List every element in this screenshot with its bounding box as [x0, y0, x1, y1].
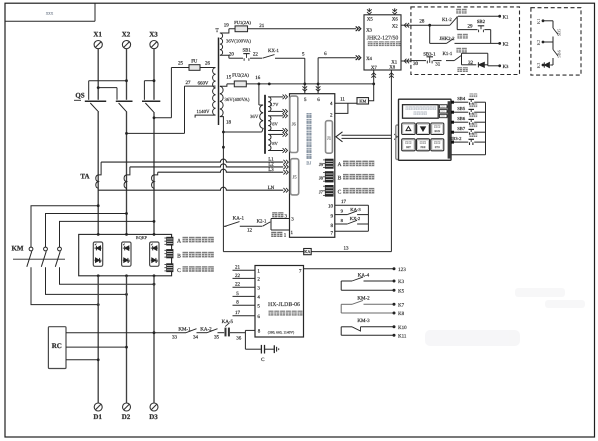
svg-text:STO: STO [435, 146, 440, 149]
svg-text:22: 22 [235, 273, 241, 279]
svg-text:SB5: SB5 [557, 28, 562, 36]
svg-text:35: 35 [214, 334, 220, 340]
svg-text:21: 21 [235, 265, 241, 271]
svg-text:17V: 17V [271, 102, 280, 107]
svg-text:K8: K8 [398, 311, 405, 317]
svg-text:J9: J9 [319, 162, 324, 167]
svg-text:X5: X5 [367, 17, 373, 23]
svg-text:K3: K3 [398, 279, 405, 285]
svg-text:33: 33 [172, 334, 178, 340]
svg-text:K3: K3 [503, 64, 509, 70]
svg-text:X1: X1 [93, 31, 102, 39]
svg-text:16: 16 [255, 75, 261, 81]
svg-text:SB3-2: SB3-2 [450, 136, 462, 141]
svg-text:LN: LN [268, 185, 275, 191]
svg-text:TA: TA [80, 173, 89, 181]
svg-text:HX-JLDB-06: HX-JLDB-06 [268, 302, 300, 308]
svg-text:D1: D1 [93, 413, 102, 421]
svg-text:FU2(2A): FU2(2A) [232, 73, 249, 78]
svg-text:SB7: SB7 [457, 126, 466, 131]
svg-text:K1-1: K1-1 [442, 51, 452, 57]
svg-text:19: 19 [224, 22, 230, 28]
svg-text:X3: X3 [149, 31, 158, 39]
svg-text:11: 11 [340, 97, 345, 103]
svg-text:K5: K5 [398, 288, 405, 294]
svg-text:BJ: BJ [306, 161, 311, 166]
svg-text:21: 21 [259, 23, 265, 29]
svg-text:25: 25 [178, 61, 184, 67]
svg-text:18: 18 [226, 119, 232, 125]
svg-text:KX-1: KX-1 [268, 48, 280, 54]
svg-text:KM: KM [359, 99, 366, 104]
svg-text:J8: J8 [319, 175, 324, 180]
svg-text:X6: X6 [392, 16, 398, 22]
svg-text:SB4: SB4 [457, 96, 466, 101]
svg-text:36V(400VA): 36V(400VA) [225, 97, 250, 103]
svg-text:36: 36 [236, 335, 242, 341]
svg-text:JHK2-2: JHK2-2 [439, 36, 455, 42]
svg-text:29: 29 [468, 24, 474, 30]
svg-text:30: 30 [413, 61, 419, 67]
svg-text:KA: KA [304, 249, 310, 254]
svg-text:8V: 8V [272, 141, 278, 146]
svg-text:1140V: 1140V [197, 109, 210, 115]
svg-text:D2: D2 [122, 413, 131, 421]
svg-text:J7: J7 [319, 189, 324, 194]
svg-text:(380, 660, 1140V): (380, 660, 1140V) [268, 330, 295, 334]
svg-text:15: 15 [226, 75, 232, 81]
svg-text:27: 27 [186, 80, 192, 86]
svg-text:J5: J5 [293, 175, 298, 180]
svg-text:JHK2-127/50: JHK2-127/50 [367, 35, 399, 41]
svg-text:B: B [338, 175, 342, 181]
svg-text:12: 12 [247, 228, 253, 234]
svg-text:SB6: SB6 [557, 49, 562, 57]
svg-text:K2-1: K2-1 [257, 218, 267, 224]
svg-text:KM: KM [11, 245, 23, 253]
svg-text:K1: K1 [536, 18, 541, 24]
svg-text:22: 22 [253, 51, 259, 57]
svg-text:123: 123 [398, 267, 406, 273]
svg-text:KX-2: KX-2 [350, 216, 361, 221]
svg-text:17: 17 [341, 199, 347, 205]
svg-text:SB6: SB6 [457, 116, 466, 121]
svg-text:C: C [177, 268, 181, 274]
svg-text:X7: X7 [371, 65, 377, 71]
svg-text:RC: RC [52, 342, 62, 350]
svg-text:xxx: xxx [46, 12, 54, 17]
svg-text:K2: K2 [536, 39, 541, 45]
svg-text:13: 13 [344, 245, 350, 251]
svg-text:660V: 660V [198, 81, 209, 87]
svg-text:BQKP: BQKP [136, 235, 148, 240]
svg-text:K7: K7 [398, 303, 405, 309]
svg-text:D3: D3 [149, 413, 158, 421]
svg-text:X3: X3 [366, 28, 372, 34]
svg-text:K1-2: K1-2 [442, 17, 452, 23]
svg-text:KA-3: KA-3 [350, 207, 361, 212]
svg-text:36V: 36V [250, 114, 259, 120]
svg-text:26: 26 [205, 61, 211, 67]
svg-text:SB5: SB5 [457, 106, 466, 111]
svg-text:KA-4: KA-4 [358, 272, 370, 278]
svg-text:KM-2: KM-2 [357, 296, 370, 302]
svg-text:KM-3: KM-3 [357, 318, 370, 324]
svg-text:28: 28 [419, 18, 425, 24]
svg-text:X8: X8 [389, 64, 395, 70]
svg-text:L2: L2 [268, 162, 274, 168]
svg-text:32: 32 [468, 60, 474, 66]
svg-text:K10: K10 [398, 325, 407, 331]
svg-text:34: 34 [193, 334, 199, 340]
svg-text:10: 10 [328, 204, 334, 210]
svg-text:36V(100VA): 36V(100VA) [226, 39, 251, 45]
svg-text:RUN: RUN [434, 130, 440, 133]
svg-text:SB1: SB1 [242, 47, 251, 53]
svg-text:FU1(2A): FU1(2A) [234, 20, 251, 25]
svg-text:X2: X2 [392, 23, 398, 29]
svg-text:K1: K1 [503, 14, 509, 20]
svg-text:A: A [177, 238, 181, 244]
svg-text:QS: QS [75, 92, 84, 100]
svg-text:8V: 8V [272, 122, 278, 127]
svg-text:X4: X4 [366, 56, 372, 62]
svg-text:FRE: FRE [421, 146, 426, 149]
svg-text:A: A [337, 162, 341, 168]
svg-text:FU: FU [191, 59, 198, 65]
svg-text:31: 31 [435, 61, 441, 67]
svg-text:KA-1: KA-1 [233, 215, 245, 221]
svg-text:J1: J1 [327, 136, 332, 141]
svg-text:C: C [338, 189, 342, 195]
svg-text:K2: K2 [503, 42, 509, 48]
svg-text:17: 17 [235, 310, 241, 316]
svg-text:L3: L3 [268, 167, 274, 173]
svg-text:K11: K11 [398, 333, 407, 339]
svg-text:X2: X2 [122, 31, 131, 39]
svg-text:B: B [177, 253, 181, 259]
svg-text:22: 22 [235, 282, 241, 288]
svg-text:K3: K3 [536, 62, 541, 68]
svg-text:SB2: SB2 [477, 19, 486, 25]
svg-text:SET: SET [406, 146, 411, 149]
svg-text:J6: J6 [292, 122, 297, 127]
svg-text:20: 20 [229, 51, 235, 57]
